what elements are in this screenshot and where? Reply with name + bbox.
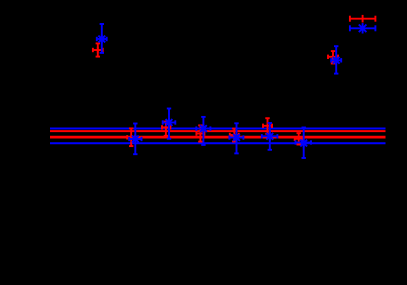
data point R2 red plus with error bars <box>127 128 135 146</box>
data point R5 red plus with error bars <box>230 129 239 142</box>
data point R6 red plus with error bars <box>263 118 272 134</box>
data point B5 blue star with error bars <box>229 123 243 153</box>
band line red lower thick <box>50 136 386 139</box>
data point R1 red plus with error bars <box>93 43 103 56</box>
data point B8 blue star with error bars <box>331 46 341 73</box>
data point R7 red plus with error bars <box>295 133 303 144</box>
legend red entry <box>350 15 376 23</box>
data point R4 red plus with error bars <box>196 125 204 141</box>
band line blue lower <box>50 142 386 144</box>
data point B4 blue star with error bars <box>196 117 210 145</box>
data point R3 red plus with error bars <box>162 122 170 136</box>
data point R8 red plus with error bars <box>328 51 338 63</box>
band line red upper <box>50 130 386 132</box>
data point B7 blue star with error bars <box>296 128 312 159</box>
legend blue entry <box>350 23 376 33</box>
band line blue upper <box>50 127 386 129</box>
data point B1 blue star with error bars <box>97 24 107 53</box>
data point B6 blue star with error bars <box>262 123 278 150</box>
data point B3 blue star with error bars <box>163 109 176 139</box>
data point B2 blue star with error bars <box>129 124 141 155</box>
